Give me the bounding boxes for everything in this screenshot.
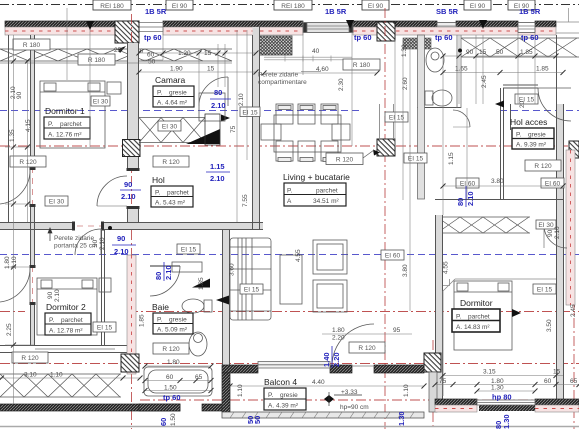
right wall x556-563 bbox=[556, 35, 558, 400]
svg-text:Hol acces: Hol acces bbox=[510, 117, 547, 127]
dormitor2 bottom wall / window y345-353 bbox=[0, 345, 127, 347]
fire rating box EI 90 (4) bbox=[508, 0, 535, 10]
door label hol 1.15/2.10 bbox=[206, 162, 230, 183]
svg-text:tp 60: tp 60 bbox=[435, 33, 453, 42]
svg-text:50: 50 bbox=[148, 59, 156, 66]
svg-text:R 120: R 120 bbox=[358, 345, 376, 352]
svg-text:2.10: 2.10 bbox=[164, 265, 173, 280]
svg-text:EI 30: EI 30 bbox=[538, 222, 554, 229]
R 120 box living bbox=[326, 153, 363, 165]
EI 30 box right top bbox=[536, 220, 556, 229]
svg-text:P.: P. bbox=[48, 121, 53, 128]
red axis vertical x=433 bottom bbox=[432, 340, 434, 429]
svg-text:2.25: 2.25 bbox=[6, 323, 13, 336]
svg-text:parchet: parchet bbox=[167, 190, 189, 197]
svg-text:1.15: 1.15 bbox=[448, 152, 455, 165]
extension lines vertical through plan bbox=[66, 8, 68, 80]
property boundary dash-dot line top bbox=[0, 4, 579, 6]
svg-text:R 120: R 120 bbox=[19, 159, 37, 166]
door label baie 80/2.10 rotated bbox=[154, 262, 173, 281]
svg-text:R 180: R 180 bbox=[88, 57, 106, 64]
load bearing wall y222-229 horizontal with door gap bbox=[0, 222, 75, 224]
bed dormitor 1 bbox=[40, 81, 105, 148]
svg-text:P.: P. bbox=[157, 317, 162, 324]
svg-text:parchet: parchet bbox=[60, 121, 82, 128]
svg-text:A. 12.78 m²: A. 12.78 m² bbox=[49, 328, 83, 335]
column C8 middle living (hatched) bbox=[377, 139, 395, 156]
balcony top window bbox=[258, 362, 330, 369]
svg-text:EI 30: EI 30 bbox=[162, 124, 178, 131]
svg-text:2.10: 2.10 bbox=[210, 174, 225, 183]
EI 15 box sofa bbox=[240, 284, 263, 294]
door camara from living bbox=[199, 77, 228, 106]
svg-text:2.10: 2.10 bbox=[121, 192, 136, 201]
sink baie bbox=[189, 332, 207, 356]
dormitor right left wall x435-443 bbox=[435, 215, 437, 400]
svg-text:R 120: R 120 bbox=[534, 163, 552, 170]
top wall of hol acces y85-88 bbox=[503, 84, 538, 86]
svg-text:90: 90 bbox=[16, 91, 23, 99]
red centerline spine wall bbox=[255, 27, 257, 230]
svg-text:4.40: 4.40 bbox=[312, 379, 325, 386]
svg-text:80: 80 bbox=[154, 272, 163, 280]
svg-text:65: 65 bbox=[570, 378, 578, 385]
svg-text:1.10: 1.10 bbox=[237, 384, 244, 397]
svg-text:Hol: Hol bbox=[152, 175, 165, 185]
svg-text:4.15: 4.15 bbox=[25, 119, 32, 132]
window parapet lines below top wall bbox=[264, 56, 352, 62]
red centerline load wall bbox=[0, 225, 263, 227]
red axis vertical x=574 right edge bbox=[573, 300, 575, 429]
svg-text:EI 60: EI 60 bbox=[385, 253, 401, 260]
svg-text:1B 5R: 1B 5R bbox=[145, 7, 167, 16]
camara shelf bbox=[199, 93, 225, 121]
WC2 door arc bbox=[453, 110, 470, 127]
svg-text:3.80: 3.80 bbox=[491, 178, 504, 185]
left inner wall line bbox=[8, 35, 10, 222]
svg-text:compartimentare: compartimentare bbox=[258, 79, 307, 86]
left exterior wall with door gaps bbox=[30, 35, 32, 170]
bottom-left row bbox=[0, 377, 140, 379]
svg-text:tp 60: tp 60 bbox=[163, 393, 181, 402]
svg-text:Baie: Baie bbox=[152, 302, 169, 312]
EI 30 box camara bbox=[158, 121, 181, 131]
wall fill dormitor1 right bbox=[128, 43, 139, 171]
dim line left vertical x13.5 bbox=[5, 35, 34, 404]
top exterior wall: dark hatched band bbox=[5, 21, 115, 27]
column C1 top-left (hatched) bbox=[115, 21, 139, 43]
fire rating box REI 180 top-left bbox=[93, 0, 131, 10]
svg-text:1.15: 1.15 bbox=[210, 162, 225, 171]
svg-text:gresie: gresie bbox=[280, 392, 298, 399]
balcony bottom wall bbox=[222, 412, 424, 418]
wall fill dormitor right left bbox=[436, 215, 443, 400]
dormitor right inner floor outline with dog-ear bbox=[443, 279, 556, 396]
red centerline right wall bbox=[559, 104, 561, 400]
door label dormitor2 90/2.10 bbox=[112, 234, 136, 256]
window in top wall (right) bbox=[518, 23, 535, 33]
svg-text:1.50: 1.50 bbox=[170, 413, 177, 426]
svg-text:Dormitor 1: Dormitor 1 bbox=[45, 106, 85, 116]
svg-text:1.90: 1.90 bbox=[170, 66, 183, 73]
fire rating box EI 90 bbox=[166, 0, 193, 10]
svg-text:4.60: 4.60 bbox=[316, 66, 329, 73]
dormitor bottom window bbox=[477, 400, 535, 405]
svg-text:34.51 m²: 34.51 m² bbox=[313, 198, 339, 205]
EI 60 box hol acces 2 bbox=[541, 178, 564, 188]
svg-text:hp=90 cm: hp=90 cm bbox=[340, 404, 369, 411]
svg-text:parchet: parchet bbox=[468, 314, 490, 321]
svg-text:hp 80: hp 80 bbox=[492, 393, 512, 402]
balcony top wall textured bbox=[222, 365, 258, 373]
chair right bbox=[332, 124, 350, 140]
svg-text:1.20: 1.20 bbox=[178, 50, 191, 57]
EI 30 box top-left bbox=[91, 96, 110, 106]
red axis horizontal y=146 bbox=[0, 145, 579, 147]
R 180 box 2 bbox=[78, 54, 115, 65]
svg-text:A. 14.83 m²: A. 14.83 m² bbox=[456, 324, 490, 331]
sofa along lower spine wall bbox=[230, 238, 271, 320]
spine wall lower x222-230 bbox=[222, 230, 224, 373]
svg-text:A. 9.39 m²: A. 9.39 m² bbox=[516, 142, 547, 149]
svg-text:2.10: 2.10 bbox=[114, 247, 129, 256]
svg-text:2.45: 2.45 bbox=[481, 75, 488, 88]
svg-text:7.55: 7.55 bbox=[242, 194, 249, 207]
balcony door 1.40/2.20 rotated bbox=[322, 346, 341, 368]
door hol acces top right bbox=[538, 87, 571, 89]
svg-text:EI 15: EI 15 bbox=[244, 287, 260, 294]
svg-text:EI 60: EI 60 bbox=[545, 181, 561, 188]
wall fill spine upper bbox=[253, 27, 260, 230]
svg-text:3.10: 3.10 bbox=[24, 372, 37, 379]
svg-text:EI 15: EI 15 bbox=[389, 115, 405, 122]
fire rating box REI 180 (2) bbox=[274, 0, 312, 10]
svg-text:1.85: 1.85 bbox=[198, 277, 205, 290]
dormitor right bottom wall pink+hatch bbox=[435, 399, 477, 405]
R 120 box dormitor2 bottom bbox=[12, 352, 48, 363]
svg-text:1.80: 1.80 bbox=[4, 256, 11, 269]
WC2 toilet bbox=[432, 90, 452, 106]
svg-text:60: 60 bbox=[544, 378, 552, 385]
red axis horizontal y=311.5 bbox=[128, 311, 579, 313]
svg-text:gresie: gresie bbox=[169, 317, 187, 324]
svg-text:65: 65 bbox=[195, 374, 203, 381]
svg-text:parchet: parchet bbox=[316, 188, 338, 195]
svg-text:1.85: 1.85 bbox=[520, 49, 533, 56]
column C5 balcony right (hatched) bbox=[424, 353, 441, 372]
door baie bbox=[150, 266, 180, 296]
truss band T1 below top wall left bbox=[0, 49, 232, 61]
spine wall upper bbox=[252, 35, 254, 230]
svg-text:90: 90 bbox=[547, 229, 554, 237]
balcony bottom dim bbox=[230, 385, 424, 387]
red axis horizontal y=400 balcony bbox=[140, 399, 579, 401]
svg-text:1B 5R: 1B 5R bbox=[325, 7, 347, 16]
top-right corner wall edges bbox=[556, 8, 579, 33]
svg-text:1.80: 1.80 bbox=[167, 359, 180, 366]
chairs top row bbox=[276, 104, 338, 124]
dining table living bbox=[274, 115, 341, 152]
svg-text:Perete zidarie: Perete zidarie bbox=[54, 235, 94, 242]
chairs bottom row bbox=[276, 141, 338, 162]
bottom gray ground line bbox=[0, 426, 579, 428]
EI 15 box dormitor2 bbox=[93, 322, 116, 332]
R 120 box dormitor1 bbox=[10, 156, 46, 167]
svg-text:1.35: 1.35 bbox=[9, 129, 16, 142]
svg-text:2.10: 2.10 bbox=[11, 256, 18, 269]
svg-text:2.10: 2.10 bbox=[54, 289, 61, 302]
svg-text:3.15: 3.15 bbox=[483, 369, 496, 376]
svg-text:+3.33: +3.33 bbox=[341, 389, 358, 396]
svg-text:EI 60: EI 60 bbox=[460, 181, 476, 188]
svg-text:P.: P. bbox=[516, 132, 521, 139]
svg-text:2.10: 2.10 bbox=[211, 101, 226, 110]
top dim line living 4.60 bbox=[264, 72, 377, 74]
column C2 top-middle (hatched) bbox=[377, 22, 395, 41]
svg-text:1.10: 1.10 bbox=[50, 372, 63, 379]
svg-text:2.10: 2.10 bbox=[238, 93, 245, 106]
blue dashed beam line y=110.5 bbox=[0, 110, 360, 112]
hol acces 80/2.10 rotated bbox=[456, 186, 475, 207]
svg-text:EI 90: EI 90 bbox=[172, 3, 188, 10]
R 120 box baie bottom bbox=[153, 343, 189, 354]
svg-text:1.40: 1.40 bbox=[322, 352, 331, 367]
svg-text:2.30: 2.30 bbox=[338, 78, 345, 91]
door label camara 80/2.10 bbox=[210, 88, 231, 110]
svg-text:R 120: R 120 bbox=[336, 157, 354, 164]
svg-text:tp 60: tp 60 bbox=[144, 33, 162, 42]
window in top wall (living) bbox=[303, 23, 353, 33]
masonry block under top wall (compartment wall) bbox=[258, 36, 292, 55]
wall fill right outer bbox=[557, 104, 564, 400]
svg-text:R 120: R 120 bbox=[162, 159, 180, 166]
arrow into right wall hol acces bbox=[495, 101, 504, 108]
svg-text:P.: P. bbox=[268, 392, 273, 399]
svg-text:P.: P. bbox=[456, 314, 461, 321]
bed dormitor 2 bbox=[37, 278, 97, 335]
right dim row 1.65/1.85 bbox=[443, 72, 563, 74]
svg-text:4.55: 4.55 bbox=[443, 261, 450, 274]
balcony left wall bbox=[222, 373, 230, 412]
svg-text:REI 180: REI 180 bbox=[281, 3, 305, 10]
toilet baie bbox=[182, 299, 204, 313]
svg-text:20: 20 bbox=[519, 100, 526, 108]
svg-text:2.45: 2.45 bbox=[570, 304, 577, 317]
svg-text:R 120: R 120 bbox=[162, 346, 180, 353]
svg-text:80: 80 bbox=[214, 88, 222, 97]
wall fill spine lower bbox=[223, 230, 230, 373]
svg-text:95: 95 bbox=[393, 327, 401, 334]
bathtub baie bbox=[144, 367, 212, 396]
WC2 sink bbox=[426, 48, 444, 72]
R 180 box 3 bbox=[343, 59, 380, 70]
svg-text:1.50: 1.50 bbox=[164, 385, 177, 392]
svg-text:3.50: 3.50 bbox=[546, 319, 553, 332]
svg-text:R 180: R 180 bbox=[353, 62, 371, 69]
svg-text:60: 60 bbox=[166, 374, 174, 381]
truss T5 hol beam bbox=[139, 118, 205, 143]
svg-text:P.: P. bbox=[155, 190, 160, 197]
svg-text:R 120: R 120 bbox=[21, 355, 39, 362]
fire rating box EI 90 (3) bbox=[464, 0, 491, 10]
svg-text:P.: P. bbox=[157, 90, 162, 97]
svg-text:90: 90 bbox=[124, 180, 132, 189]
svg-text:EI 90: EI 90 bbox=[368, 3, 384, 10]
top dim lines camara bbox=[139, 52, 256, 54]
svg-text:EI 15: EI 15 bbox=[537, 287, 553, 294]
svg-text:A. 5.43 m²: A. 5.43 m² bbox=[155, 200, 186, 207]
svg-text:75: 75 bbox=[439, 378, 447, 385]
svg-text:Dormitor 2: Dormitor 2 bbox=[46, 302, 86, 312]
truss band T3 bottom left bbox=[0, 374, 121, 397]
axis arrows into top wall bbox=[86, 21, 94, 30]
svg-text:90: 90 bbox=[117, 234, 125, 243]
coffee table bbox=[280, 255, 302, 304]
svg-text:2.10: 2.10 bbox=[554, 226, 561, 239]
blue dashed beam line y=254.5 bbox=[0, 254, 579, 256]
dormitor right rows bbox=[443, 375, 563, 377]
door arc dormitor1 left bbox=[0, 170, 30, 204]
EI 60 box hol acces 1 bbox=[456, 178, 479, 188]
top exterior wall: pink insulation band bbox=[5, 27, 115, 35]
svg-text:EI 15: EI 15 bbox=[242, 110, 258, 117]
svg-text:50: 50 bbox=[496, 49, 504, 56]
EI 15 box living top bbox=[385, 112, 408, 122]
armchair 1 bbox=[313, 240, 347, 274]
WC2 room walls (near hol acces) bbox=[418, 35, 462, 199]
masonry block right (hol acces top) bbox=[403, 38, 431, 49]
svg-text:R 180: R 180 bbox=[23, 42, 41, 49]
EI 15 box dormitor right bbox=[533, 284, 556, 294]
red axis horizontal y=363.5 bbox=[0, 363, 579, 365]
svg-text:REI 180: REI 180 bbox=[100, 3, 124, 10]
EI 15 box hol top bbox=[240, 107, 260, 117]
svg-text:90: 90 bbox=[92, 239, 99, 247]
nightstand dormitor2 bbox=[99, 278, 111, 292]
hol acces 3.80 bbox=[443, 185, 563, 187]
svg-text:P.: P. bbox=[49, 317, 54, 324]
EI 15 box top right bbox=[515, 94, 538, 104]
svg-text:Balcon 4: Balcon 4 bbox=[264, 377, 297, 387]
svg-text:3.80: 3.80 bbox=[402, 264, 409, 277]
wall fill left bbox=[31, 35, 35, 170]
svg-text:80: 80 bbox=[456, 198, 465, 206]
svg-text:1.65: 1.65 bbox=[455, 66, 468, 73]
svg-text:A: A bbox=[287, 198, 292, 205]
door to dormitor2 from hol bbox=[75, 229, 101, 255]
level marker +3.33 bbox=[324, 389, 369, 411]
red centerline dormitor left wall bbox=[438, 215, 440, 400]
fire rating box EI 90 (2) bbox=[362, 0, 389, 10]
hol acces bottom wall y200 bbox=[435, 199, 563, 201]
svg-text:1.30: 1.30 bbox=[502, 414, 511, 429]
svg-text:15: 15 bbox=[553, 369, 561, 376]
R 120 box hol bbox=[153, 156, 189, 167]
truss band T4 right above dormitor bbox=[437, 217, 530, 233]
partition line under truss bbox=[0, 62, 232, 64]
wall under WC2 bbox=[417, 107, 461, 109]
door lintel top wall near column C1 bbox=[139, 23, 163, 32]
svg-text:2.10: 2.10 bbox=[10, 86, 17, 99]
svg-text:4.55: 4.55 bbox=[295, 249, 302, 262]
svg-text:1B 5R: 1B 5R bbox=[519, 7, 541, 16]
svg-text:15: 15 bbox=[207, 66, 215, 73]
pink wall stub below C1 bbox=[128, 43, 136, 67]
R 120 box balcony door bbox=[349, 342, 385, 353]
svg-text:2.60: 2.60 bbox=[402, 77, 409, 90]
wall between dormitor2 and baie-nook x101-105 bbox=[101, 229, 103, 345]
red dashes inside pink band bbox=[5, 30, 556, 32]
svg-text:EI 15: EI 15 bbox=[181, 247, 197, 254]
svg-text:2.10: 2.10 bbox=[99, 237, 106, 250]
svg-text:60: 60 bbox=[159, 418, 168, 426]
svg-text:SB 5R: SB 5R bbox=[436, 7, 459, 16]
svg-text:2.20: 2.20 bbox=[332, 335, 345, 342]
svg-text:A. 12.76 m²: A. 12.76 m² bbox=[48, 132, 82, 139]
shaft black wedge hol bbox=[186, 129, 220, 144]
svg-text:Camara: Camara bbox=[155, 75, 186, 85]
svg-text:90: 90 bbox=[47, 291, 54, 299]
svg-text:40: 40 bbox=[312, 48, 320, 55]
red axis vertical x=385 bbox=[384, 8, 386, 429]
svg-text:15: 15 bbox=[479, 49, 487, 56]
bottom-left exterior wall strip bbox=[0, 404, 180, 411]
column C9 at wall crossing (hatched) bbox=[123, 140, 141, 157]
black arrow left of hol truss bbox=[221, 115, 230, 122]
bed dormitor right bbox=[454, 281, 512, 350]
svg-text:2.20: 2.20 bbox=[332, 352, 341, 367]
svg-text:1.85: 1.85 bbox=[139, 314, 146, 327]
svg-text:15: 15 bbox=[204, 50, 212, 57]
svg-text:A. 4.39 m²: A. 4.39 m² bbox=[268, 403, 299, 410]
svg-text:1.30: 1.30 bbox=[491, 385, 504, 392]
svg-text:1.30: 1.30 bbox=[401, 44, 408, 57]
right wall pink band lower bbox=[566, 150, 575, 305]
svg-text:1.85: 1.85 bbox=[536, 66, 549, 73]
top dim line right 90 bbox=[443, 55, 459, 57]
armchair 2 bbox=[313, 280, 347, 312]
balcony door arc bbox=[332, 324, 374, 366]
baie rows bbox=[145, 365, 211, 367]
baie bottom wall strip bbox=[139, 404, 180, 411]
svg-text:EI 30: EI 30 bbox=[49, 199, 65, 206]
EI 60 box living right bbox=[381, 250, 404, 260]
svg-text:A. 4.64 m²: A. 4.64 m² bbox=[157, 100, 188, 107]
wall fill load bearing horizontal bbox=[0, 223, 75, 230]
svg-text:portanta 25 cm: portanta 25 cm bbox=[54, 243, 97, 250]
R 120 box hol acces bbox=[525, 160, 561, 171]
svg-text:EI 30: EI 30 bbox=[93, 99, 109, 106]
svg-text:60: 60 bbox=[147, 52, 155, 59]
red centerline left wall bbox=[32, 35, 34, 345]
svg-text:tp 60: tp 60 bbox=[354, 33, 372, 42]
washing machine baie top bbox=[172, 262, 202, 272]
svg-text:parchet: parchet bbox=[61, 317, 83, 324]
svg-text:tp 60: tp 60 bbox=[521, 33, 539, 42]
svg-text:gresie: gresie bbox=[528, 132, 546, 139]
hol acces left wall x500 bbox=[500, 88, 502, 200]
EI 15 box baie door bbox=[177, 244, 200, 254]
svg-text:A. 5.09 m²: A. 5.09 m² bbox=[157, 327, 188, 334]
door arc dormitor2 left bbox=[0, 268, 30, 302]
vertical pink load wall x127-136 between dormitor2 and baie bbox=[127, 255, 136, 374]
EI 15 box wc bbox=[404, 153, 427, 163]
svg-text:50: 50 bbox=[253, 416, 262, 424]
column C3 right edge (hatched) bbox=[569, 141, 579, 158]
svg-text:3.60: 3.60 bbox=[229, 263, 236, 276]
door dormitor right bbox=[544, 225, 567, 248]
svg-text:P.: P. bbox=[287, 188, 292, 195]
